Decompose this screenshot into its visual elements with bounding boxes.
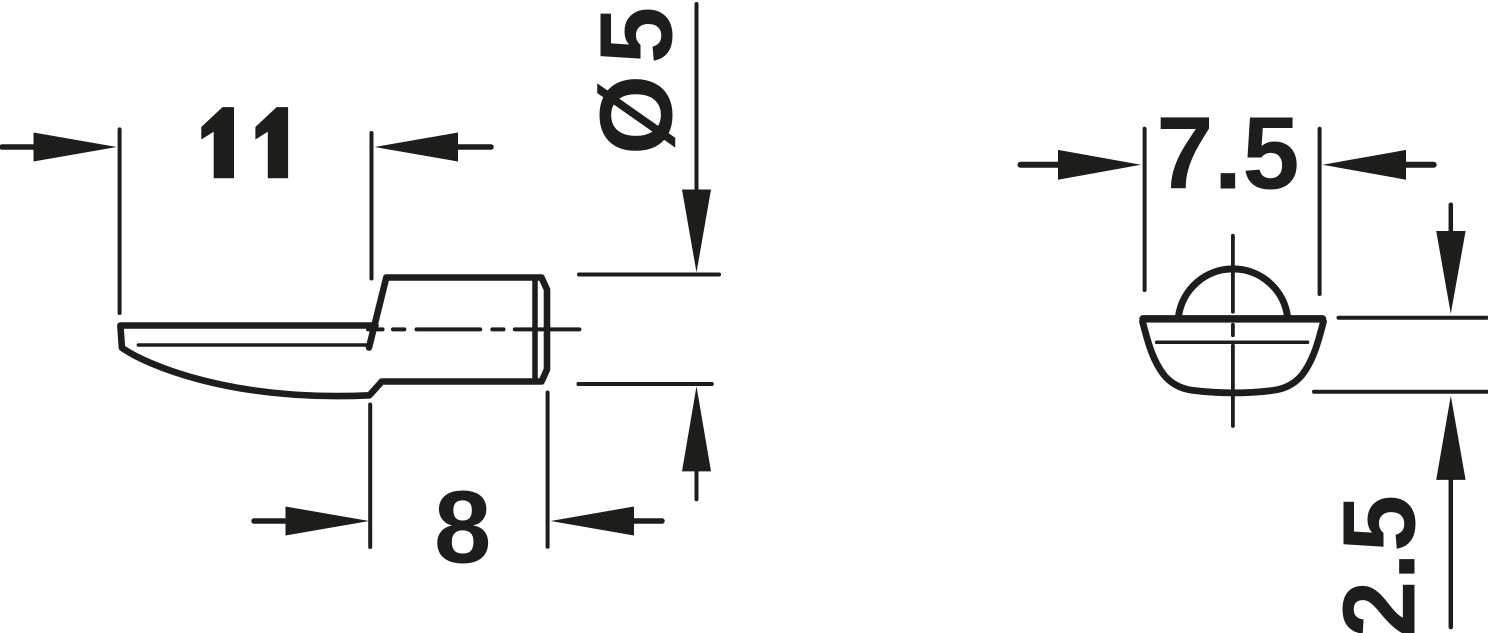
dim dia5: top extension line [579, 273, 719, 277]
dim 2.5: upper extension line [1339, 316, 1488, 320]
dim dia5: upper dimension line with down arrow [695, 4, 699, 190]
dim 8: right extension line [546, 393, 550, 547]
front view: seam line [1157, 340, 1308, 344]
dim 8: right arrow [551, 507, 634, 536]
dim 7.5: left extension line [1143, 129, 1147, 290]
dim 2.5: lower extension line [1314, 390, 1487, 394]
dim dia5: bottom extension line [578, 382, 712, 386]
front view: rim top edge [1143, 315, 1323, 323]
dim 7.5: right arrow [1323, 150, 1407, 180]
dim 11: right extension line [370, 133, 374, 279]
pin chamfer edge line [532, 281, 538, 379]
svg-text:8: 8 [434, 470, 491, 585]
shelf pin side view: body outline [120, 278, 547, 397]
blade inner edge line [138, 343, 367, 346]
svg-text:Ø5: Ø5 [579, 0, 694, 155]
centre line (dash-dot) of pin axis [368, 327, 579, 331]
dim dia5: lower up arrow [682, 386, 711, 471]
front view: cup lower outline [1143, 322, 1324, 393]
dim 7.5: right extension line [1318, 129, 1322, 294]
dim 2.5: lower up arrow [1436, 396, 1465, 480]
svg-text:7.5: 7.5 [1156, 96, 1299, 211]
front view: vertical centre line [1231, 236, 1235, 426]
front view: dome arc [1179, 269, 1288, 317]
dim 7.5: left arrow [1021, 162, 1061, 168]
dim text 11 (custom helvetica-style numerals) [201, 107, 288, 178]
dim 11: right arrow [375, 133, 458, 162]
svg-text:2.5: 2.5 [1321, 495, 1436, 633]
dim 2.5: upper dimension line with down arrow [1449, 205, 1454, 232]
dim 11: left arrow [2, 144, 36, 150]
dim 11: left extension line [118, 129, 122, 313]
dim 8: left arrow [254, 518, 288, 524]
dim 8: left extension line [368, 405, 372, 548]
